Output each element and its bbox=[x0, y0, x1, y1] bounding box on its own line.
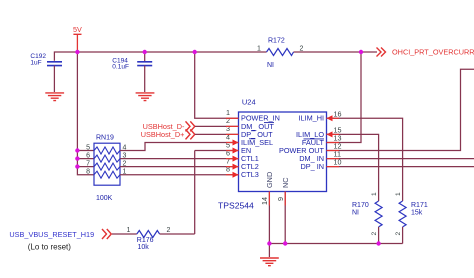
U24 input pin arrows left bbox=[233, 140, 239, 178]
wire POWER OUT off page bbox=[327, 69, 474, 150]
wire ILIM_LO to R170 bbox=[327, 134, 379, 201]
svg-text:NI: NI bbox=[352, 210, 359, 217]
wire GND NC stubs and bottom rail bbox=[269, 192, 402, 244]
svg-text:8: 8 bbox=[86, 169, 90, 176]
U24 pin numbers left bbox=[226, 108, 230, 173]
power symbol 5V bbox=[73, 25, 82, 52]
svg-text:5: 5 bbox=[86, 145, 90, 152]
wire RN19 pin3 to CTL1 bbox=[120, 158, 239, 160]
resistor R172 bbox=[257, 38, 304, 70]
resistor R171 bbox=[395, 192, 428, 244]
svg-text:TPS2544: TPS2544 bbox=[218, 201, 254, 211]
capacitor C192 bbox=[30, 53, 62, 92]
svg-text:(Lo to reset): (Lo to reset) bbox=[28, 243, 71, 252]
svg-text:CTL3: CTL3 bbox=[241, 170, 259, 179]
svg-text:NI: NI bbox=[267, 62, 274, 69]
svg-text:7: 7 bbox=[86, 161, 90, 168]
ground under C194 bbox=[136, 93, 155, 101]
svg-text:DP_ IN: DP_ IN bbox=[300, 162, 324, 171]
wire EN from R176 bbox=[195, 151, 239, 235]
svg-text:10k: 10k bbox=[138, 244, 150, 251]
svg-text:16: 16 bbox=[334, 109, 342, 118]
U24 bottom pin labels GND NC bbox=[265, 172, 290, 188]
wire ILIM_HI to R171 bbox=[327, 118, 403, 201]
ground under C192 bbox=[45, 93, 64, 101]
svg-text:9: 9 bbox=[276, 197, 285, 201]
U24 input pin arrows right bbox=[327, 115, 333, 137]
U24 right pin labels bbox=[279, 114, 325, 171]
svg-text:1uF: 1uF bbox=[30, 59, 41, 66]
RN19 pin numbers bbox=[86, 145, 126, 176]
wire D- to pin 2 bbox=[195, 125, 239, 127]
wire rail to R172 bbox=[195, 51, 267, 53]
svg-text:0.1uF: 0.1uF bbox=[112, 63, 129, 70]
wire R172 to OHCI chevron bbox=[294, 51, 378, 53]
ground under U24 bbox=[260, 244, 279, 266]
wire DM_IN off page bbox=[327, 158, 474, 160]
svg-text:R172: R172 bbox=[268, 38, 285, 45]
wire FAULT up to OHCI net bbox=[327, 52, 362, 143]
resistor R170 bbox=[352, 192, 382, 244]
svg-text:8: 8 bbox=[226, 165, 230, 174]
svg-text:1: 1 bbox=[127, 227, 131, 234]
svg-text:2: 2 bbox=[395, 232, 402, 236]
wire RN19 pin1 to CTL3 bbox=[120, 174, 239, 176]
wire DP_IN off page bbox=[327, 166, 474, 168]
wire 5V rail bbox=[54, 52, 194, 61]
wire 5V to pin 1 POWER_IN bbox=[195, 52, 239, 118]
svg-text:6: 6 bbox=[86, 153, 90, 160]
svg-text:5V: 5V bbox=[73, 25, 82, 34]
svg-text:ILIM_HI: ILIM_HI bbox=[298, 114, 324, 123]
svg-text:R176: R176 bbox=[137, 237, 154, 244]
svg-text:RN19: RN19 bbox=[96, 135, 114, 142]
net USBHost_D- bbox=[143, 121, 195, 131]
U24 pin numbers right bbox=[334, 109, 342, 166]
svg-text:2: 2 bbox=[167, 227, 171, 234]
svg-text:R170: R170 bbox=[352, 202, 369, 209]
U24 pin numbers bottom bbox=[260, 197, 285, 205]
svg-text:NC: NC bbox=[281, 177, 290, 188]
svg-text:U24: U24 bbox=[242, 97, 256, 106]
svg-text:15k: 15k bbox=[411, 210, 423, 217]
svg-text:1: 1 bbox=[257, 46, 261, 53]
svg-text:USB_VBUS_RESET_H19: USB_VBUS_RESET_H19 bbox=[9, 230, 94, 239]
wire D+ to pin 3 bbox=[195, 133, 239, 135]
net OHCI_PRT_OVERCURRENT bbox=[377, 48, 474, 57]
wire RN19 pull-up bus bbox=[77, 52, 94, 175]
svg-text:1: 1 bbox=[371, 192, 378, 196]
svg-text:2: 2 bbox=[371, 232, 378, 236]
wire RN19 pin4 jog to ILIM_SEL bbox=[120, 143, 239, 151]
svg-text:14: 14 bbox=[260, 197, 269, 205]
svg-text:OHCI_PRT_OVERCURRENT: OHCI_PRT_OVERCURRENT bbox=[392, 48, 474, 57]
svg-text:R171: R171 bbox=[411, 202, 428, 209]
resistor network RN19 bbox=[94, 135, 120, 203]
op-amp U24 box bbox=[218, 97, 327, 210]
U24 red pin stubs bbox=[226, 118, 339, 205]
svg-text:GND: GND bbox=[265, 172, 274, 188]
svg-text:2: 2 bbox=[300, 46, 304, 53]
resistor R176 bbox=[112, 227, 195, 251]
capacitor C194 bbox=[112, 52, 152, 92]
wire RN19 pin2 to CTL2 bbox=[120, 166, 239, 168]
svg-text:USBHost_D+: USBHost_D+ bbox=[141, 130, 185, 139]
net USB_VBUS_RESET_H19 bbox=[9, 229, 111, 252]
U24 left pin labels bbox=[241, 114, 280, 179]
svg-text:100K: 100K bbox=[96, 195, 113, 202]
svg-text:1: 1 bbox=[395, 192, 402, 196]
net USBHost_D+ bbox=[141, 129, 195, 139]
